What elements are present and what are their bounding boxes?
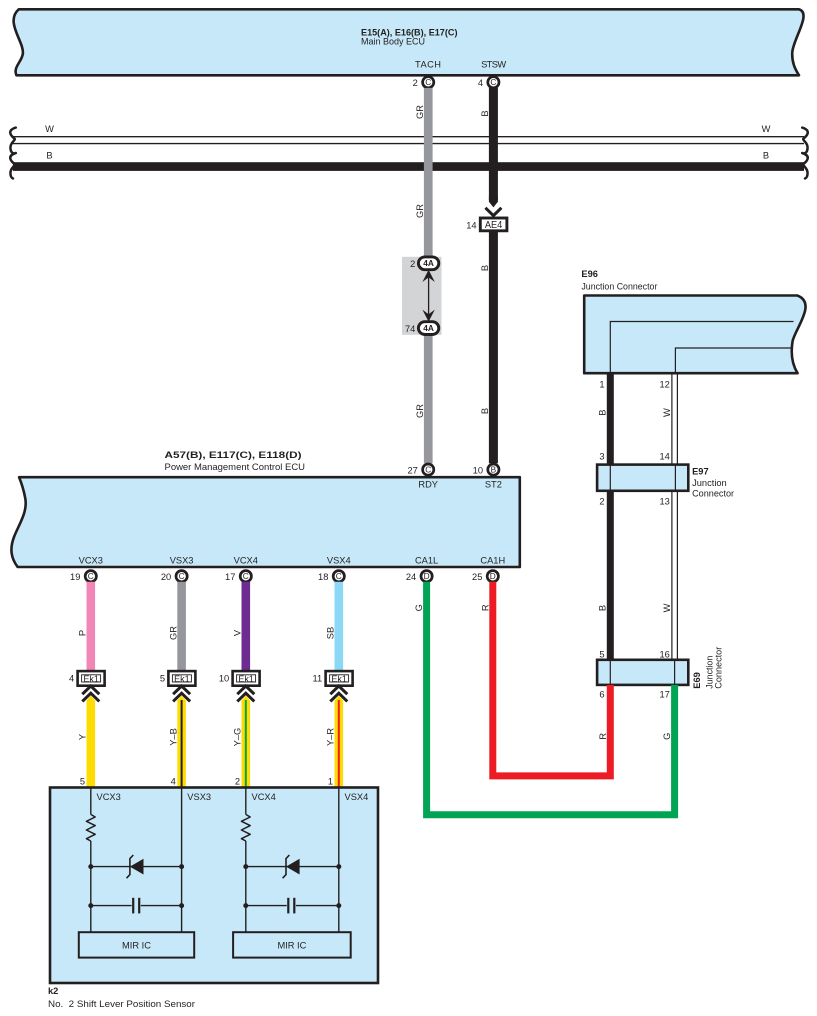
wire-break squiggle B left bbox=[10, 153, 16, 179]
svg-text:RDY: RDY bbox=[418, 480, 438, 490]
svg-text:Ek1: Ek1 bbox=[174, 673, 190, 684]
svg-text:C: C bbox=[425, 77, 431, 87]
svg-text:14: 14 bbox=[659, 452, 669, 462]
capacitor row wire (circuit 2) bbox=[246, 905, 287, 907]
svg-text:Connector: Connector bbox=[692, 489, 734, 499]
svg-text:G: G bbox=[662, 733, 672, 740]
IC block MIR IC (circuit 1) bbox=[79, 932, 194, 957]
svg-text:W: W bbox=[662, 603, 672, 612]
svg-text:VCX3: VCX3 bbox=[79, 556, 103, 566]
svg-text:Y–G: Y–G bbox=[233, 728, 243, 747]
svg-text:B: B bbox=[480, 265, 490, 271]
svg-text:4A: 4A bbox=[423, 258, 434, 268]
junction connector block E96 bbox=[584, 296, 805, 374]
zener diode (circuit 1) bbox=[130, 859, 144, 875]
wire V: VCX4 pin17 to Ek1 bbox=[242, 582, 251, 671]
svg-text:CA1L: CA1L bbox=[415, 556, 438, 566]
capacitor C (circuit 2) bbox=[287, 898, 289, 914]
svg-text:B: B bbox=[597, 409, 607, 415]
svg-text:5: 5 bbox=[160, 674, 165, 684]
wire Y-G: Ek1 to sensor pin2 (yellow/green stripe, pointed tip) bbox=[242, 696, 251, 788]
svg-text:17: 17 bbox=[225, 572, 235, 582]
svg-text:VCX4: VCX4 bbox=[234, 556, 258, 566]
wire SB: VSX4 pin18 to Ek1 bbox=[335, 582, 344, 671]
svg-text:27: 27 bbox=[407, 465, 417, 475]
svg-text:Y: Y bbox=[78, 734, 88, 740]
svg-text:C: C bbox=[336, 571, 342, 581]
wire B vertical E97 pin2 to E69 pin5 bbox=[607, 491, 614, 660]
wire VCX4 internal (top) bbox=[245, 788, 247, 815]
internal bus wire to pin 12 bbox=[675, 348, 791, 372]
svg-text:TACH: TACH bbox=[415, 60, 441, 70]
wire Y-B: Ek1 to sensor pin4 (yellow/black stripe, pointed tip) bbox=[177, 696, 186, 788]
ECU block: Main Body ECU (E15/E16/E17) bbox=[14, 9, 804, 75]
svg-text:No. 2 Shift Lever Position Se: No. 2 Shift Lever Position Sensor bbox=[48, 999, 195, 1009]
svg-text:19: 19 bbox=[70, 572, 80, 582]
svg-text:Ek1: Ek1 bbox=[238, 673, 254, 684]
svg-text:14: 14 bbox=[466, 220, 476, 230]
pass-through wire inside E69 (right) bbox=[674, 660, 676, 685]
svg-text:VSX4: VSX4 bbox=[327, 556, 351, 566]
ECU block: Power Management Control ECU (A57/E117/E118) bbox=[11, 477, 519, 567]
svg-text:4A: 4A bbox=[423, 323, 434, 333]
wire VSX4 internal bbox=[338, 788, 340, 933]
wire G: CA1L to E69 pin17 bbox=[427, 582, 675, 815]
svg-text:2: 2 bbox=[413, 78, 418, 88]
svg-text:W: W bbox=[762, 124, 771, 134]
node VCX3/capacitor junction bbox=[88, 903, 93, 908]
chevron above AE4 bbox=[485, 208, 501, 216]
svg-text:GR: GR bbox=[415, 404, 425, 418]
svg-text:24: 24 bbox=[406, 572, 416, 582]
svg-text:B: B bbox=[46, 150, 52, 160]
wire VCX3 internal (top) bbox=[90, 788, 92, 815]
chevrons below Ek1 pin5 bbox=[173, 686, 190, 701]
svg-text:2: 2 bbox=[599, 496, 604, 506]
node VSX3/diode junction bbox=[179, 864, 184, 869]
arrow down (4A pair) bbox=[422, 310, 434, 322]
svg-text:17: 17 bbox=[659, 689, 669, 699]
svg-text:R: R bbox=[598, 733, 608, 740]
svg-text:SB: SB bbox=[326, 627, 336, 639]
svg-text:B: B bbox=[491, 465, 497, 475]
IC block MIR IC (circuit 2) bbox=[233, 932, 351, 957]
svg-text:Ek1: Ek1 bbox=[83, 673, 99, 684]
link line between 4A connectors bbox=[428, 276, 430, 316]
svg-text:1: 1 bbox=[328, 777, 333, 787]
svg-text:VCX3: VCX3 bbox=[97, 792, 121, 802]
node VSX3/capacitor junction bbox=[179, 903, 184, 908]
wire-break squiggle W right bbox=[802, 128, 808, 154]
svg-text:E69: E69 bbox=[692, 672, 702, 689]
wire R: CA1H to E69 pin6 bbox=[493, 582, 611, 776]
chevrons below Ek1 pin11 bbox=[330, 686, 347, 701]
svg-text:4: 4 bbox=[171, 777, 176, 787]
svg-text:Connector: Connector bbox=[713, 647, 723, 689]
svg-text:Main Body ECU: Main Body ECU bbox=[361, 37, 425, 47]
svg-text:E96: E96 bbox=[581, 269, 598, 279]
component block k2: No.2 Shift Lever Position Sensor bbox=[50, 788, 378, 984]
svg-text:3: 3 bbox=[599, 452, 604, 462]
svg-text:6: 6 bbox=[599, 689, 604, 699]
svg-text:2: 2 bbox=[235, 777, 240, 787]
svg-text:P: P bbox=[78, 630, 88, 636]
svg-text:1: 1 bbox=[599, 380, 604, 390]
svg-text:2: 2 bbox=[410, 259, 415, 269]
wire W vertical E96 pin12 to E97 pin14 (double line) bbox=[671, 373, 673, 465]
svg-text:Ek1: Ek1 bbox=[331, 673, 347, 684]
svg-text:GR: GR bbox=[415, 204, 425, 218]
node VCX3/diode junction bbox=[88, 864, 93, 869]
wire W horizontal (double line) bbox=[13, 136, 804, 138]
svg-text:E97: E97 bbox=[692, 467, 709, 477]
svg-text:20: 20 bbox=[161, 572, 171, 582]
svg-text:AE4: AE4 bbox=[485, 219, 503, 231]
svg-text:11: 11 bbox=[313, 674, 323, 684]
svg-text:4: 4 bbox=[69, 674, 74, 684]
svg-text:R: R bbox=[480, 604, 490, 611]
svg-text:CA1H: CA1H bbox=[480, 556, 505, 566]
node VCX4/diode junction bbox=[243, 864, 248, 869]
svg-text:GR: GR bbox=[415, 105, 425, 119]
node VSX4/capacitor junction bbox=[336, 903, 341, 908]
svg-text:C: C bbox=[490, 77, 496, 87]
4A inline connector block (shaded) bbox=[402, 257, 442, 335]
svg-text:G: G bbox=[414, 604, 424, 611]
diode row wire (circuit 1) bbox=[91, 866, 182, 868]
svg-text:5: 5 bbox=[599, 650, 604, 660]
svg-text:B: B bbox=[480, 408, 490, 414]
wire Y-R: Ek1 to sensor pin1 (yellow/red stripe, pointed tip) bbox=[335, 696, 344, 788]
svg-text:Y–B: Y–B bbox=[168, 728, 178, 746]
svg-text:12: 12 bbox=[659, 380, 669, 390]
diode row wire (circuit 2) bbox=[246, 866, 339, 868]
node VSX4/diode junction bbox=[336, 864, 341, 869]
wire VCX3 internal (below resistor) bbox=[90, 841, 92, 932]
svg-text:B: B bbox=[597, 605, 607, 611]
svg-text:B: B bbox=[763, 150, 769, 160]
node VCX4/capacitor junction bbox=[243, 903, 248, 908]
svg-text:C: C bbox=[243, 571, 249, 581]
wire P: VCX3 pin19 to Ek1 bbox=[87, 582, 96, 671]
resistor (VCX3) bbox=[86, 814, 95, 841]
zener diode (circuit 2) bbox=[286, 859, 300, 875]
pass-through wire inside E69 (left) bbox=[609, 660, 611, 685]
wire GR vertical TACH to RDY bbox=[424, 88, 433, 463]
svg-text:D: D bbox=[424, 571, 430, 581]
wire B vertical E96 pin1 to E97 pin3 bbox=[607, 373, 614, 465]
pass-through wire B inside E97 bbox=[609, 465, 611, 491]
chevrons below Ek1 pin4 bbox=[82, 686, 99, 701]
wire VCX4 internal (below resistor) bbox=[245, 841, 247, 932]
svg-text:W: W bbox=[45, 124, 54, 134]
svg-text:C: C bbox=[179, 571, 185, 581]
svg-text:ST2: ST2 bbox=[485, 480, 502, 490]
svg-text:k2: k2 bbox=[48, 986, 58, 996]
svg-text:18: 18 bbox=[318, 572, 328, 582]
capacitor row wire (circuit 1) bbox=[91, 905, 132, 907]
svg-text:Power Management Control ECU: Power Management Control ECU bbox=[165, 462, 306, 472]
svg-text:A57(B), E117(C), E118(D): A57(B), E117(C), E118(D) bbox=[165, 450, 302, 460]
resistor (VCX4) bbox=[241, 814, 250, 841]
svg-text:MIR IC: MIR IC bbox=[122, 940, 151, 950]
svg-text:4: 4 bbox=[478, 78, 483, 88]
junction connector block E97 bbox=[597, 465, 688, 491]
svg-text:25: 25 bbox=[472, 572, 482, 582]
svg-text:W: W bbox=[662, 408, 672, 417]
wire B horizontal (thick) bbox=[13, 162, 804, 171]
svg-text:13: 13 bbox=[659, 496, 669, 506]
svg-text:MIR IC: MIR IC bbox=[277, 940, 306, 950]
svg-text:B: B bbox=[480, 110, 490, 116]
svg-text:D: D bbox=[490, 571, 496, 581]
wire Y: Ek1 to sensor pin5 (yellow, pointed tip) bbox=[87, 696, 96, 788]
capacitor C (circuit 1) bbox=[132, 898, 134, 914]
svg-text:C: C bbox=[425, 465, 431, 475]
arrow up (4A pair) bbox=[422, 270, 434, 282]
svg-text:5: 5 bbox=[80, 777, 85, 787]
wire-break squiggle W left bbox=[10, 128, 16, 154]
svg-text:10: 10 bbox=[473, 465, 483, 475]
svg-text:VSX3: VSX3 bbox=[170, 556, 194, 566]
wire end arrow into AE4 bbox=[489, 197, 498, 208]
svg-text:VCX4: VCX4 bbox=[252, 792, 276, 802]
svg-text:GR: GR bbox=[168, 626, 178, 640]
svg-text:Junction Connector: Junction Connector bbox=[581, 281, 657, 291]
pass-through wire W inside E97 bbox=[674, 465, 676, 491]
chevrons below Ek1 pin10 bbox=[237, 686, 254, 701]
svg-text:Junction: Junction bbox=[692, 478, 727, 488]
wire VSX3 internal bbox=[181, 788, 183, 933]
svg-text:10: 10 bbox=[219, 674, 229, 684]
internal bus wire to pin 1 bbox=[610, 322, 793, 373]
wire B vertical STSW to AE4 bbox=[489, 88, 498, 200]
svg-text:VSX3: VSX3 bbox=[187, 792, 211, 802]
svg-text:74: 74 bbox=[405, 324, 415, 334]
svg-text:Y–R: Y–R bbox=[326, 728, 336, 746]
wire-break squiggle B right bbox=[802, 153, 808, 179]
svg-text:C: C bbox=[88, 571, 94, 581]
svg-text:STSW: STSW bbox=[481, 60, 506, 70]
wire W vertical E97 pin13 to E69 pin16 (double line) bbox=[671, 491, 673, 660]
junction connector block E69 bbox=[597, 660, 688, 685]
svg-text:V: V bbox=[233, 629, 243, 636]
svg-text:16: 16 bbox=[659, 650, 669, 660]
wire GR: VSX3 pin20 to Ek1 bbox=[177, 582, 186, 671]
wire B vertical AE4 to ST2 bbox=[489, 232, 498, 464]
svg-text:VSX4: VSX4 bbox=[345, 792, 369, 802]
